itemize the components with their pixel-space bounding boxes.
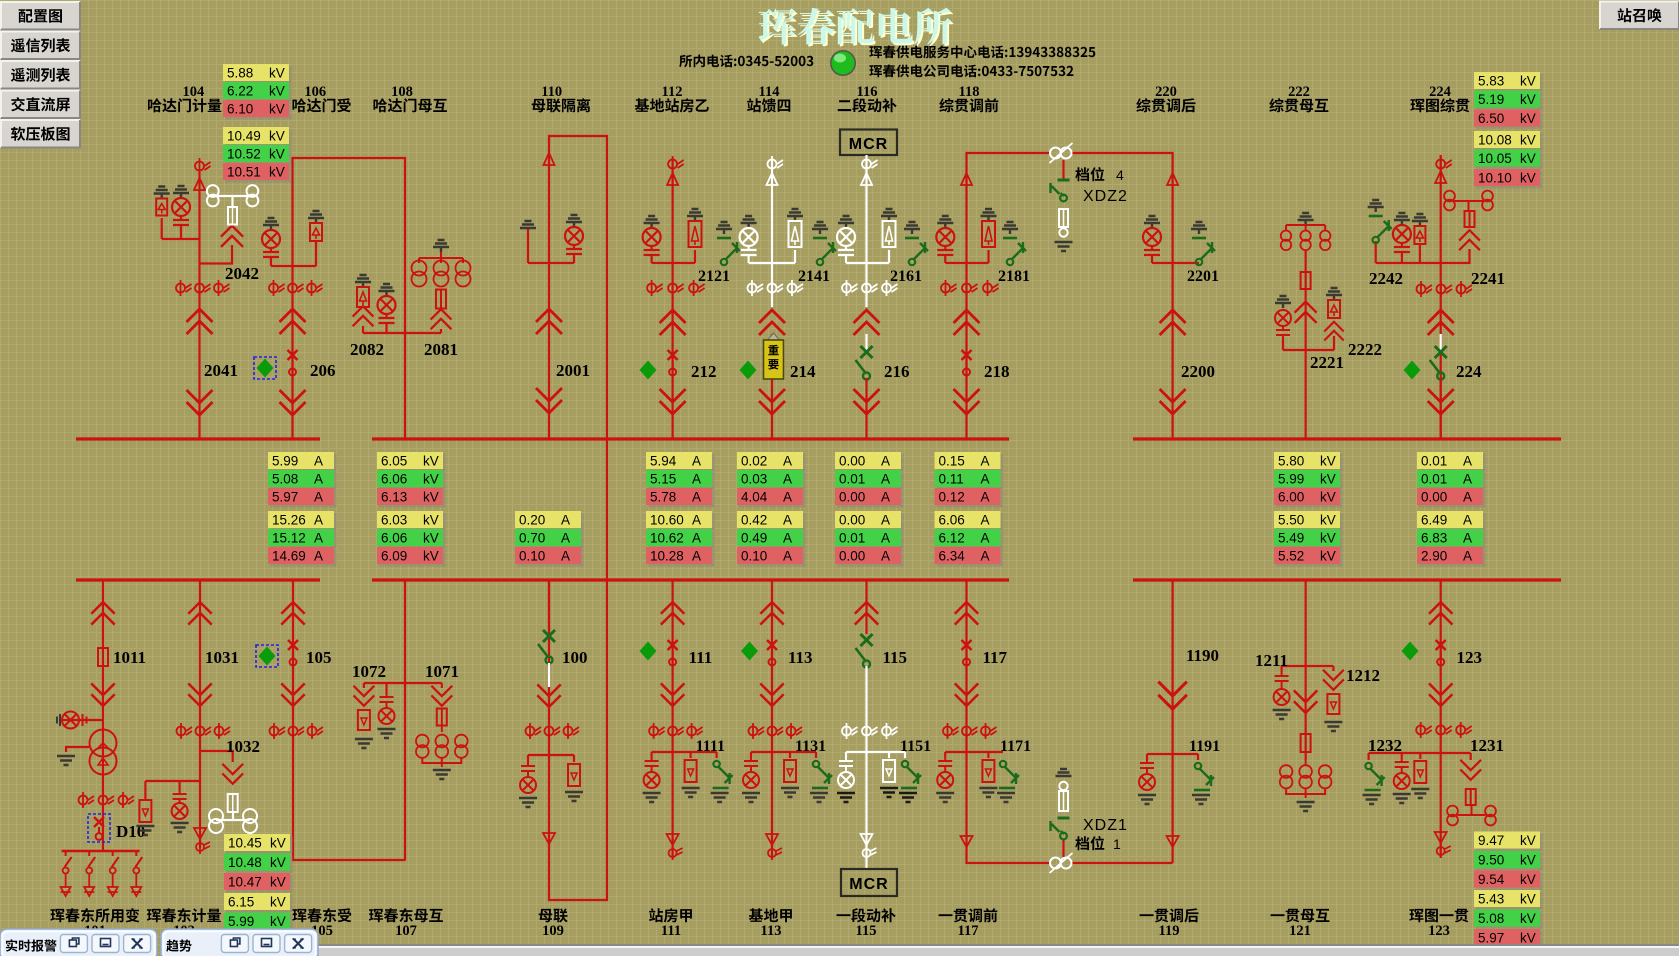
- fuse 222: [1301, 272, 1311, 289]
- svg-text:0.11: 0.11: [939, 472, 964, 487]
- svg-text:MCR: MCR: [849, 876, 888, 893]
- wire feeder 224 white mid: [1440, 334, 1442, 352]
- arrester 1151 (white): [883, 760, 895, 782]
- minimized window 趋势: [161, 929, 318, 956]
- svg-text:0.49: 0.49: [741, 531, 767, 546]
- wire 109 arrester stem: [573, 755, 575, 762]
- green indicator lamp: [830, 50, 856, 76]
- tap changer switch XDZ1 (green): [1051, 818, 1070, 839]
- disconnector 117 lower chevron: [956, 684, 978, 706]
- pt marks 105 mid: [289, 723, 305, 739]
- bus upper segment 2: [372, 437, 1009, 440]
- arrester gap 224: [1435, 171, 1446, 183]
- label 117 一贯调前: [939, 908, 998, 922]
- disconnector 113 lower chevron: [761, 684, 783, 706]
- arrester gap 104: [194, 178, 205, 190]
- ground 121: [1297, 802, 1315, 811]
- svg-text:121: 121: [1289, 923, 1311, 939]
- transformer 2241 (PT pair): [1444, 191, 1493, 211]
- ground 1232 lamp: [1393, 794, 1411, 803]
- svg-text:5.99: 5.99: [272, 454, 298, 469]
- svg-text:4: 4: [1116, 167, 1124, 183]
- earth switch 2121: [716, 222, 740, 265]
- button 遥信列表: [1, 32, 80, 60]
- disconnector 109 chevron: [538, 685, 560, 707]
- svg-text:0.00: 0.00: [839, 549, 865, 564]
- wire 116 cluster tap: [846, 262, 889, 264]
- svg-text:224: 224: [1429, 84, 1451, 100]
- svg-text:kV: kV: [423, 490, 439, 505]
- lamp PT 109: [520, 762, 536, 793]
- wire 220 lamp stem: [1151, 258, 1153, 263]
- wire 115 tap: [846, 751, 905, 753]
- wire feeder 117: [967, 580, 1051, 863]
- arrester gap 112: [667, 173, 678, 185]
- svg-text:5.52: 5.52: [1278, 549, 1304, 564]
- breaker 111: [668, 640, 678, 666]
- svg-text:A: A: [1463, 513, 1472, 528]
- earth arrow 111: [667, 834, 683, 860]
- label 107 珲春东母互: [369, 908, 443, 922]
- svg-text:0.10: 0.10: [519, 549, 545, 564]
- pt marks 115 left: [842, 723, 858, 739]
- pt marks 105 left: [270, 723, 286, 739]
- ground 1131 switch: [810, 793, 828, 802]
- phone info right line1: [869, 46, 1095, 59]
- svg-text:123: 123: [1428, 923, 1450, 939]
- svg-text:A: A: [314, 531, 323, 546]
- svg-text:A: A: [783, 490, 792, 505]
- breaker 224 (green open): [1430, 346, 1447, 380]
- svg-text:2001: 2001: [556, 361, 590, 380]
- disconnector 113 upper chevron: [761, 602, 783, 624]
- distribution feeders 101: [61, 851, 143, 896]
- svg-text:9.50: 9.50: [1478, 853, 1504, 868]
- svg-text:0.00: 0.00: [839, 513, 865, 528]
- svg-text:5.97: 5.97: [1478, 931, 1504, 946]
- transformer T1 101 (two winding): [90, 730, 117, 775]
- value stack 105 6kV: [224, 893, 293, 913]
- earth switch 2141: [812, 222, 836, 265]
- transformer 2081 (three phase PT): [412, 240, 471, 287]
- value stack mid c5: [737, 452, 806, 472]
- svg-text:kV: kV: [1320, 531, 1336, 546]
- value stack 104 6kV: [223, 64, 292, 84]
- pt tap 104 top: [195, 158, 211, 174]
- pt marks 2041 mid: [195, 280, 211, 296]
- svg-text:1031: 1031: [205, 648, 239, 667]
- disconnector 123 upper chevron: [1430, 602, 1452, 624]
- fuse 2241: [1465, 211, 1475, 227]
- wire 119 gsw stem: [1197, 754, 1199, 760]
- wire feeder 113: [771, 580, 773, 858]
- svg-text:5.83: 5.83: [1478, 74, 1504, 89]
- svg-text:A: A: [314, 513, 323, 528]
- breaker 100 (green open): [538, 630, 555, 664]
- fuse XDZ2 (white): [1059, 209, 1068, 237]
- ground cap 110: [520, 221, 536, 228]
- pt marks 105 right: [308, 723, 324, 739]
- earth switch 1111 (green): [713, 761, 733, 788]
- taskbar strip: [318, 944, 1679, 956]
- disconnector 123 lower chevron: [1430, 684, 1452, 706]
- svg-text:114: 114: [759, 84, 780, 100]
- svg-text:110: 110: [541, 84, 562, 100]
- wire feeder 103: [199, 580, 201, 848]
- svg-text:kV: kV: [269, 102, 285, 117]
- fuse 2081: [436, 290, 446, 309]
- pt marks 115 right: [882, 723, 898, 739]
- earth switch 2242: [1368, 200, 1392, 243]
- fuse 1071: [437, 709, 447, 726]
- breaker 206: [288, 350, 298, 376]
- svg-text:123: 123: [1457, 648, 1483, 667]
- svg-text:kV: kV: [269, 165, 285, 180]
- lamp PT 2221: [1275, 296, 1291, 339]
- svg-text:A: A: [783, 472, 792, 487]
- wire 222 tap: [1283, 349, 1334, 351]
- disconnector 2200 upper chevron: [1161, 310, 1185, 334]
- tag diamond 111: [640, 642, 657, 661]
- disconnector 216 upper chevron: [855, 310, 879, 334]
- wire 103 pt tap: [145, 780, 200, 782]
- svg-text:218: 218: [984, 362, 1010, 381]
- wire 2082 arrester stem: [362, 326, 364, 333]
- svg-text:kV: kV: [1520, 151, 1536, 166]
- svg-text:6.06: 6.06: [381, 531, 407, 546]
- svg-text:A: A: [981, 549, 990, 564]
- lamp PT 116: [837, 216, 855, 259]
- disconnector 1190 chevron: [1159, 683, 1185, 709]
- svg-text:2141: 2141: [798, 268, 830, 285]
- wire 113 gsw stem: [815, 752, 817, 758]
- ground 1131 lamp: [742, 793, 760, 802]
- svg-text:A: A: [1463, 454, 1472, 469]
- svg-text:A: A: [692, 513, 701, 528]
- wire 109 white segment: [548, 663, 550, 687]
- label 103 珲春东计量: [147, 908, 221, 922]
- disconnector 111 upper chevron: [662, 602, 684, 624]
- svg-text:105: 105: [306, 648, 332, 667]
- arrester 1231: [1414, 761, 1426, 783]
- wire 103 arrester stem: [144, 781, 146, 800]
- svg-text:A: A: [783, 454, 792, 469]
- svg-text:kV: kV: [1320, 549, 1336, 564]
- ground 1151 lamp: [837, 793, 855, 802]
- disconnector 206 upper chevron: [281, 309, 305, 333]
- wire feeder 101: [102, 580, 104, 850]
- svg-text:5.80: 5.80: [1278, 454, 1304, 469]
- svg-text:10.10: 10.10: [1478, 171, 1512, 186]
- pt marks 214 right: [788, 280, 804, 296]
- pt marks 115 mid: [862, 723, 878, 739]
- earth arrow 119: [1167, 836, 1179, 847]
- wire 118 arrester stem: [987, 250, 989, 263]
- svg-text:1211: 1211: [1255, 651, 1288, 670]
- svg-text:0.10: 0.10: [741, 549, 767, 564]
- svg-text:A: A: [1463, 531, 1472, 546]
- pt marks 109 right: [564, 723, 580, 739]
- wire 1072 stem: [363, 683, 365, 688]
- title shadow: [761, 10, 954, 47]
- svg-text:5.99: 5.99: [228, 914, 254, 929]
- pt marks 2041 left: [176, 280, 192, 296]
- value stack mid c1: [268, 452, 337, 472]
- disconnector 121 chevron: [1295, 691, 1317, 713]
- svg-text:2222: 2222: [1348, 340, 1382, 359]
- wire feeder 105: [293, 580, 406, 860]
- arrester gap 220: [1167, 173, 1178, 185]
- regulator transformer top (white): [1050, 143, 1073, 163]
- svg-text:14.69: 14.69: [272, 549, 306, 564]
- wire 2242 tap: [1376, 262, 1441, 264]
- svg-text:2242: 2242: [1369, 269, 1403, 288]
- wire 123 tap: [1369, 752, 1471, 754]
- disconnector 224 lower chevron: [1429, 390, 1453, 414]
- transformer 1071 (three phase PT): [416, 726, 468, 767]
- tag diamond 113: [741, 642, 758, 661]
- svg-text:1231: 1231: [1470, 736, 1504, 755]
- wire 115 arrester stem: [888, 752, 890, 758]
- svg-text:A: A: [314, 549, 323, 564]
- pt marks 224 left: [1417, 281, 1433, 297]
- arrester 109: [568, 764, 580, 786]
- MCR box top: [840, 130, 897, 156]
- bus lower segment 2: [372, 578, 1009, 581]
- breaker D10 (selected): [88, 814, 110, 842]
- svg-text:5.97: 5.97: [272, 490, 298, 505]
- svg-text:0.02: 0.02: [741, 454, 767, 469]
- svg-text:A: A: [783, 549, 792, 564]
- station service lamp 101: [57, 712, 87, 729]
- earth arrow 123: [1435, 832, 1451, 858]
- breaker 113: [767, 640, 777, 666]
- svg-text:kV: kV: [1520, 74, 1536, 89]
- wire 104 arrester stem: [161, 218, 163, 239]
- lamp PT 2242: [1393, 213, 1411, 256]
- disconnector 2041 upper chevron: [188, 309, 212, 333]
- svg-text:118: 118: [959, 84, 980, 100]
- svg-text:1212: 1212: [1346, 666, 1380, 685]
- value stack mid c7: [935, 452, 1004, 472]
- earth switch 2181: [1002, 222, 1026, 265]
- svg-text:A: A: [692, 472, 701, 487]
- disconnector 1011 upper chevron: [92, 602, 114, 624]
- ground 1111 lamp: [643, 793, 661, 802]
- svg-text:A: A: [783, 531, 792, 546]
- wire 1232 gsw stem: [1367, 753, 1369, 760]
- disconnector 1231 chevron: [1461, 761, 1480, 780]
- lamp PT 220: [1143, 216, 1161, 259]
- svg-text:1191: 1191: [1189, 738, 1220, 755]
- disconnector 224 upper chevron: [1429, 310, 1453, 334]
- svg-text:113: 113: [788, 648, 813, 667]
- title 珲春配电所: [759, 8, 952, 45]
- pt marks 214 left: [748, 280, 764, 296]
- svg-text:1071: 1071: [425, 662, 459, 681]
- disconnector 216 lower chevron: [855, 390, 879, 414]
- svg-text:2081: 2081: [424, 340, 458, 359]
- svg-text:kV: kV: [269, 129, 285, 144]
- arrester 2242: [1412, 214, 1428, 244]
- svg-text:107: 107: [395, 923, 417, 939]
- svg-text:A: A: [881, 513, 890, 528]
- ground 109 arrester: [565, 792, 583, 801]
- tag diamond 224: [1404, 361, 1421, 380]
- svg-text:2200: 2200: [1181, 362, 1215, 381]
- wire 109 lamp stem: [527, 755, 529, 762]
- wire feeder 2041: [198, 172, 200, 439]
- pt marks 224 right: [1457, 281, 1473, 297]
- arrester 1171: [982, 760, 994, 782]
- svg-text:5.50: 5.50: [1278, 513, 1304, 528]
- arrester 116: [881, 209, 897, 247]
- pt marks 109 mid: [545, 723, 561, 739]
- pt marks 101 mid: [99, 792, 115, 808]
- svg-text:kV: kV: [423, 454, 439, 469]
- svg-text:A: A: [314, 490, 323, 505]
- value stack mid c6: [835, 452, 904, 472]
- wire 119 tap: [1147, 753, 1198, 755]
- button 配置图: [1, 2, 80, 30]
- wire feeder 115 white: [865, 666, 867, 869]
- svg-text:10.62: 10.62: [650, 531, 684, 546]
- wire 2082 lamp stem: [385, 327, 387, 333]
- svg-text:100: 100: [562, 648, 588, 667]
- svg-text:A: A: [314, 472, 323, 487]
- pt marks 2041 right: [214, 280, 230, 296]
- pt marks 216 right: [882, 280, 898, 296]
- wire 110 lamp stem: [573, 258, 575, 263]
- wire feeder 214 lower: [771, 334, 773, 439]
- regulator transformer bottom (white): [1050, 853, 1073, 873]
- value stack mid c2: [377, 452, 446, 472]
- svg-text:kV: kV: [270, 836, 286, 851]
- ground 107 lamp: [378, 729, 396, 738]
- pt marks 123 right: [1456, 722, 1472, 738]
- svg-text:kV: kV: [423, 472, 439, 487]
- wire feeder 216 white mid: [865, 334, 867, 352]
- ground XDZ2: [1055, 242, 1073, 251]
- tag diamond 123: [1402, 642, 1419, 661]
- svg-text:2041: 2041: [204, 361, 238, 380]
- lamp PT 1111: [644, 758, 660, 788]
- label 113 基地甲: [749, 908, 792, 922]
- svg-text:A: A: [881, 531, 890, 546]
- svg-text:A: A: [881, 549, 890, 564]
- wire 113 tap: [751, 751, 816, 753]
- wire 222 lamp stem: [1282, 339, 1284, 350]
- lamp PT 1151 (white): [838, 758, 854, 788]
- pt marks 101 left: [79, 792, 95, 808]
- value stack 224 6kV: [1474, 72, 1543, 92]
- pt marks 113 left: [749, 723, 765, 739]
- ground 1232 switch: [1363, 795, 1381, 804]
- svg-text:109: 109: [542, 923, 564, 939]
- svg-text:kV: kV: [1320, 490, 1336, 505]
- fuse 1032 (white): [228, 794, 238, 812]
- wire XDZ2 stem: [1062, 160, 1064, 180]
- label 101 珲春东所用变: [50, 908, 139, 922]
- svg-text:10.51: 10.51: [227, 165, 261, 180]
- svg-text:117: 117: [958, 923, 979, 939]
- pt marks 218 left: [941, 280, 957, 296]
- pt marks 206 right: [307, 280, 323, 296]
- svg-text:2121: 2121: [698, 268, 730, 285]
- svg-text:6.15: 6.15: [228, 895, 254, 910]
- label 105 珲春东受: [292, 908, 351, 922]
- breaker 115 (green open): [856, 634, 873, 668]
- disconnector 1072 chevron: [354, 687, 373, 706]
- wire 111 gsw stem: [715, 752, 717, 758]
- svg-text:216: 216: [884, 362, 910, 381]
- svg-text:222: 222: [1288, 84, 1310, 100]
- svg-text:224: 224: [1456, 362, 1482, 381]
- pt marks 109 left: [526, 723, 542, 739]
- minimized window 实时报警: [0, 929, 157, 956]
- svg-text:9.47: 9.47: [1478, 833, 1504, 848]
- svg-text:10.49: 10.49: [227, 129, 261, 144]
- voltage transformer 2042 (white PT): [207, 185, 258, 224]
- phone info left: [679, 55, 813, 68]
- disconnector 105 lower chevron: [282, 684, 304, 706]
- svg-text:6.06: 6.06: [939, 513, 965, 528]
- wire feeder 2001 and tie riser: [549, 136, 607, 900]
- disconnector 1011 lower chevron: [92, 684, 114, 706]
- wire 111 tap: [652, 751, 717, 753]
- disconnector 218 upper chevron: [955, 310, 979, 334]
- fuse 1011: [98, 648, 108, 666]
- wire 2242 gsw stem: [1375, 241, 1377, 263]
- arrester gap 118: [961, 173, 972, 185]
- svg-text:0.70: 0.70: [519, 531, 545, 546]
- wire 1071 stem: [441, 683, 443, 688]
- tag diamond 105: [256, 645, 278, 667]
- svg-text:kV: kV: [269, 147, 285, 162]
- pt tap 224 top: [1436, 156, 1452, 172]
- svg-text:kV: kV: [270, 895, 286, 910]
- earth arrow 103: [194, 828, 210, 854]
- lamp PT 103: [172, 790, 188, 819]
- wire XDZ1 stem: [1062, 840, 1064, 857]
- svg-text:2082: 2082: [350, 340, 384, 359]
- svg-text:1151: 1151: [900, 738, 931, 755]
- svg-text:0.12: 0.12: [939, 490, 965, 505]
- svg-text:0.00: 0.00: [839, 454, 865, 469]
- pt marks 101 right: [119, 792, 135, 808]
- svg-text:214: 214: [790, 362, 816, 381]
- svg-text:6.09: 6.09: [381, 549, 407, 564]
- arrester 112: [687, 209, 703, 247]
- pt marks 123 left: [1416, 722, 1432, 738]
- disconnector 115 upper chevron: [856, 602, 878, 624]
- disconnector 218 lower chevron: [955, 390, 979, 414]
- wire 2241 elbow: [1441, 249, 1470, 263]
- svg-text:0.00: 0.00: [1421, 490, 1447, 505]
- svg-text:1131: 1131: [795, 738, 826, 755]
- pt marks 216 mid: [862, 280, 878, 296]
- svg-text:0.15: 0.15: [939, 454, 965, 469]
- svg-text:A: A: [981, 513, 990, 528]
- arrester 2082: [355, 275, 371, 307]
- svg-text:6.03: 6.03: [381, 513, 407, 528]
- wire feeder 218: [967, 153, 1050, 439]
- svg-text:10.28: 10.28: [650, 549, 684, 564]
- disconnector 2001 upper chevron: [537, 309, 561, 333]
- lamp PT 106: [262, 218, 280, 261]
- wire feeder 214 white top: [771, 158, 773, 307]
- svg-text:10.05: 10.05: [1478, 151, 1512, 166]
